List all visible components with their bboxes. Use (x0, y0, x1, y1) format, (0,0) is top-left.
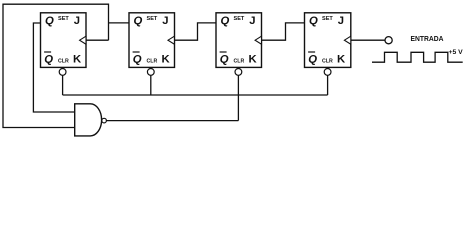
node: ENTRADA open terminal circle (385, 37, 392, 44)
wire: FF1 clock horizontal (86, 39, 109, 41)
svg-text:J: J (338, 15, 344, 27)
NAND gate U1 (75, 104, 102, 136)
svg-text:J: J (74, 15, 80, 27)
svg-text:SET: SET (147, 16, 158, 22)
FF4 clock edge triangle (344, 36, 350, 44)
flip-flop FF2 (129, 13, 175, 76)
FF4 CLR bubble (324, 69, 331, 76)
flip-flop FF1 (41, 13, 87, 76)
wire: FF2 Q output to FF1 clock (109, 22, 130, 24)
FF2 Qbar overline (133, 51, 140, 53)
FF1 CLR bubble (59, 69, 66, 76)
flip-flop FF4 (305, 13, 351, 76)
FF2 CLR bubble (147, 69, 154, 76)
FF2 box (129, 13, 175, 68)
wire: FF2 CLR stem (150, 75, 152, 95)
svg-text:K: K (73, 53, 82, 65)
svg-text:Q: Q (44, 53, 53, 65)
FF3 CLR bubble (235, 69, 242, 76)
svg-text:+5 V: +5 V (449, 49, 464, 56)
FF3 box (216, 13, 262, 68)
svg-text:K: K (162, 53, 171, 65)
wire: NAND output to riser (106, 120, 238, 122)
svg-text:J: J (162, 15, 168, 27)
svg-text:CLR: CLR (58, 58, 70, 64)
svg-text:Q: Q (134, 15, 143, 27)
svg-text:Q: Q (309, 15, 318, 27)
svg-text:CLR: CLR (147, 58, 159, 64)
svg-text:CLR: CLR (234, 58, 246, 64)
svg-text:Q: Q (220, 53, 229, 65)
FF4 Qbar overline (308, 51, 315, 53)
svg-text:K: K (337, 53, 346, 65)
wire: FF4 CLR stem (327, 75, 329, 95)
wire: FF3 Q output step down to FF2 clock (174, 23, 216, 40)
svg-text:Q: Q (133, 53, 142, 65)
wire: FF1 CLR stem (62, 75, 64, 95)
FF3 clock edge triangle (255, 36, 261, 44)
svg-text:SET: SET (234, 16, 245, 22)
FF4 box (305, 13, 351, 68)
FF1 clock edge triangle (80, 36, 86, 44)
svg-text:SET: SET (322, 16, 333, 22)
FF1 Qbar overline (44, 51, 51, 53)
wire: NAND output feedback, left vertical and top run to FF1 clock net (3, 4, 109, 127)
svg-text:K: K (249, 53, 258, 65)
svg-text:ENTRADA: ENTRADA (411, 34, 444, 43)
wire: FF3 CLR stem joining NAND output riser (237, 75, 239, 120)
FF1 box (41, 13, 87, 68)
svg-text:Q: Q (221, 15, 230, 27)
FF3 Qbar overline (220, 51, 227, 53)
wire: FF4 Q output step down to FF3 clock (262, 23, 305, 40)
svg-text:Q: Q (308, 53, 317, 65)
NAND output bubble (102, 118, 107, 123)
FF2 clock edge triangle (168, 36, 174, 44)
wire: CLR bus along bottom of flip-flops (63, 94, 328, 96)
svg-text:SET: SET (58, 16, 69, 22)
svg-text:CLR: CLR (322, 58, 334, 64)
svg-text:Q: Q (45, 15, 54, 27)
flip-flop FF3 (216, 13, 262, 76)
wire: ENTRADA input terminal to FF4 clock (351, 39, 385, 41)
svg-text:J: J (249, 15, 255, 27)
wire: FF1 Q output down to NAND top input (33, 23, 74, 112)
clock input waveform (372, 52, 463, 62)
